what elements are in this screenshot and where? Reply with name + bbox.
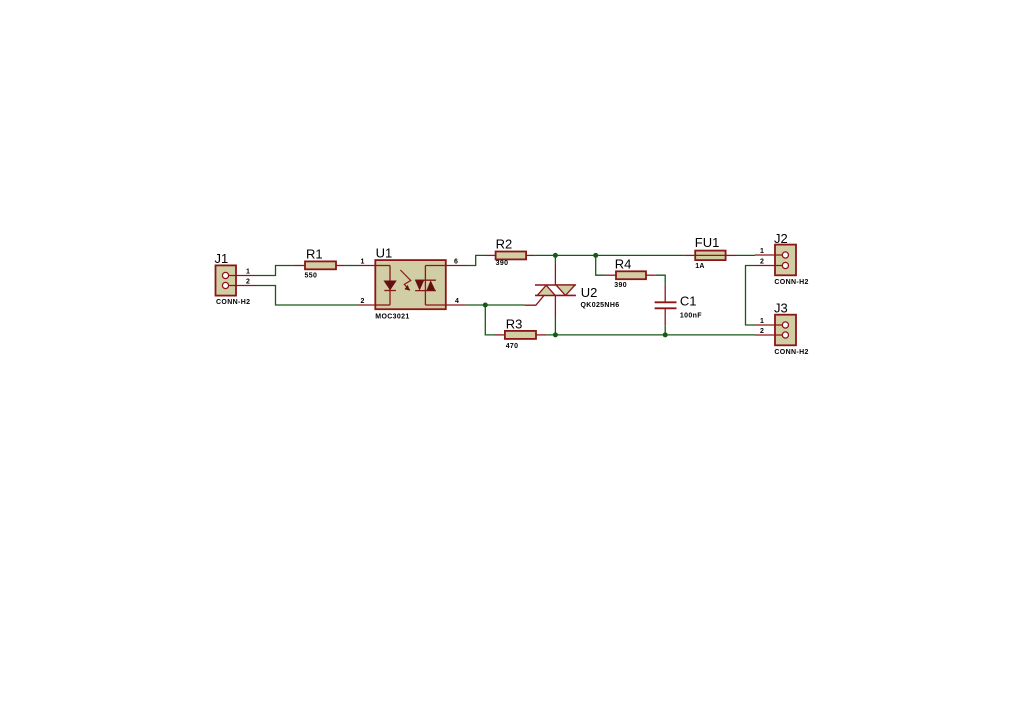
resistor R4 bbox=[605, 271, 656, 279]
svg-text:1A: 1A bbox=[695, 263, 705, 270]
svg-text:1: 1 bbox=[760, 318, 764, 325]
junction dot bottom net at triac bbox=[553, 332, 558, 337]
connector J2 bbox=[755, 245, 796, 276]
junction dot top net at R4 branch bbox=[593, 253, 598, 258]
wire triac bottom to bottom net bbox=[554, 317, 556, 335]
svg-text:4: 4 bbox=[455, 298, 459, 305]
wire bottom net R3 to J3 pin2 bbox=[546, 334, 755, 336]
svg-text:CONN-H2: CONN-H2 bbox=[774, 279, 808, 286]
svg-text:R2: R2 bbox=[496, 237, 513, 252]
resistor R2 bbox=[486, 252, 535, 260]
resistor R1 bbox=[295, 261, 346, 269]
wire R4 to C1 bbox=[656, 275, 666, 285]
svg-text:1: 1 bbox=[361, 259, 365, 266]
junction dot gate node bbox=[483, 303, 488, 308]
svg-text:2: 2 bbox=[760, 328, 764, 335]
svg-text:390: 390 bbox=[496, 260, 509, 267]
svg-text:QK025NH6: QK025NH6 bbox=[581, 302, 620, 309]
svg-text:550: 550 bbox=[305, 273, 318, 280]
wire C1 bottom to bottom net bbox=[664, 326, 666, 335]
capacitor C1 bbox=[655, 285, 677, 326]
svg-text:1: 1 bbox=[760, 248, 764, 255]
svg-text:R3: R3 bbox=[506, 317, 523, 332]
wire J1 pin1 to R1 bbox=[256, 266, 295, 276]
wire top net to triac U2 MT2 bbox=[554, 255, 556, 263]
triac U2 bbox=[525, 263, 576, 316]
svg-text:2: 2 bbox=[246, 279, 250, 286]
wire U1 pin4 to gate of U2 bbox=[465, 304, 524, 306]
svg-text:100nF: 100nF bbox=[680, 313, 702, 320]
svg-text:2: 2 bbox=[361, 298, 365, 305]
connector J1 bbox=[216, 265, 256, 295]
svg-text:C1: C1 bbox=[680, 294, 697, 309]
resistor R3 bbox=[495, 331, 546, 339]
wire top net to R4 bbox=[596, 255, 605, 275]
svg-text:470: 470 bbox=[506, 343, 519, 350]
svg-text:U2: U2 bbox=[581, 285, 598, 300]
svg-text:1: 1 bbox=[246, 269, 250, 276]
wire FU1 to J2 pin1 bbox=[736, 254, 755, 256]
wire J1 pin2 to U1 pin2 bbox=[256, 286, 359, 306]
svg-text:R4: R4 bbox=[615, 257, 632, 272]
wire J2 pin2 to J3 pin1 bbox=[746, 266, 756, 326]
svg-text:CONN-H2: CONN-H2 bbox=[774, 349, 808, 356]
wire U1 pin6 to R2 bbox=[466, 255, 486, 265]
svg-text:J1: J1 bbox=[215, 251, 229, 266]
svg-text:2: 2 bbox=[760, 259, 764, 266]
svg-text:6: 6 bbox=[454, 259, 458, 266]
svg-text:FU1: FU1 bbox=[695, 235, 720, 250]
svg-text:MOC3021: MOC3021 bbox=[375, 314, 409, 321]
wire top net R2 to FU1 bbox=[535, 254, 685, 256]
connector J3 bbox=[755, 315, 796, 346]
junction dot top net at triac bbox=[553, 253, 558, 258]
wire R1 to U1 pin1 bbox=[345, 265, 358, 267]
svg-text:J2: J2 bbox=[774, 231, 788, 246]
svg-text:R1: R1 bbox=[306, 247, 323, 262]
wire gate node down to R3 bbox=[485, 305, 495, 335]
fuse FU1 bbox=[684, 251, 736, 261]
svg-text:390: 390 bbox=[614, 282, 627, 289]
svg-text:J3: J3 bbox=[774, 301, 788, 316]
junction dot bottom net at C1 bbox=[663, 332, 668, 337]
svg-text:CONN-H2: CONN-H2 bbox=[216, 299, 250, 306]
optocoupler U1 MOC3021 bbox=[358, 260, 466, 309]
svg-text:U1: U1 bbox=[376, 246, 393, 261]
